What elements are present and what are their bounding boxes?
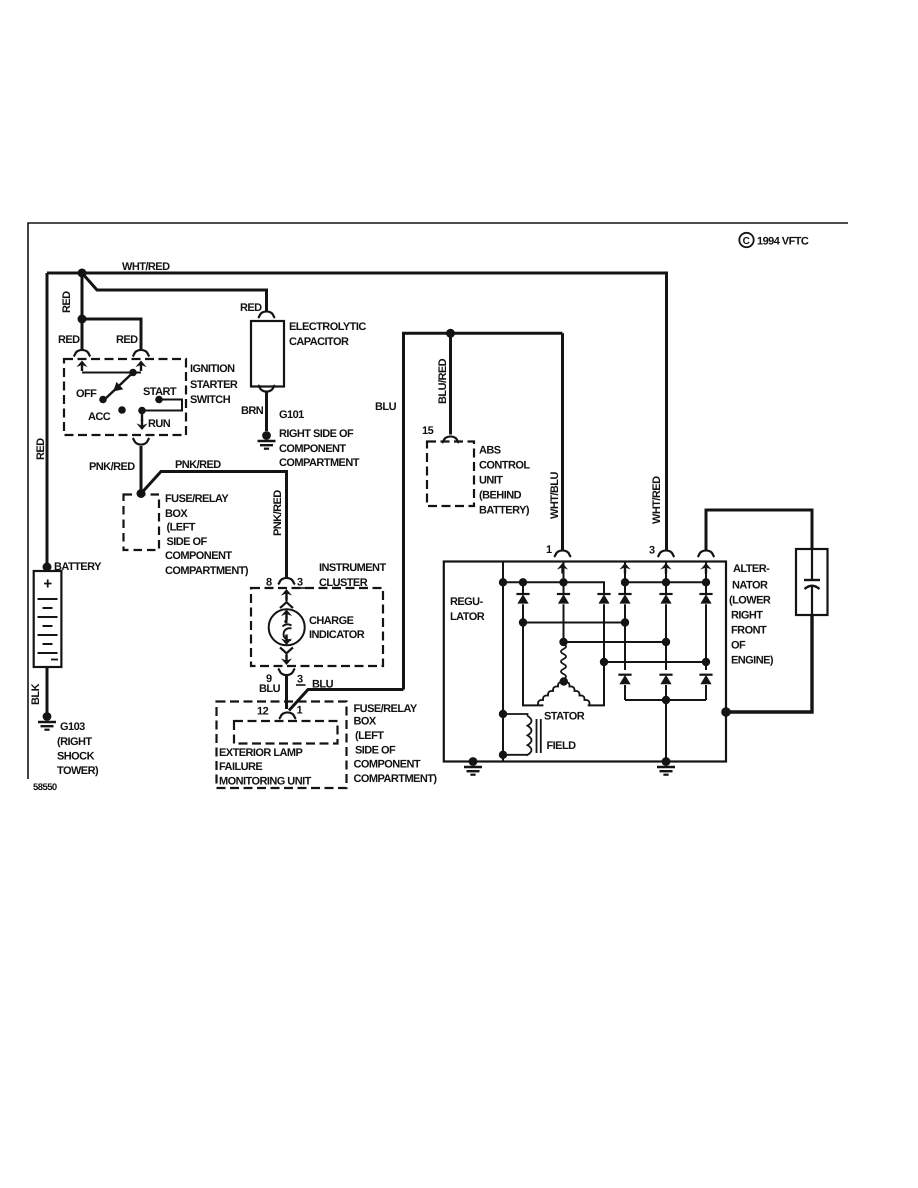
- node B+ case: [721, 707, 731, 717]
- wire RED main battery feed: [46, 273, 49, 567]
- node bus D6: [702, 578, 710, 586]
- svg-text:(RIGHT: (RIGHT: [57, 736, 92, 748]
- svg-text:BOX: BOX: [165, 508, 188, 520]
- svg-text:MONITORING UNIT: MONITORING UNIT: [219, 776, 312, 788]
- node bus D5: [662, 578, 670, 586]
- connector arc pin B2: [133, 350, 150, 356]
- svg-text:RED: RED: [116, 334, 138, 346]
- node J4: [446, 329, 455, 338]
- svg-text:ENGINE): ENGINE): [731, 655, 774, 667]
- wire rectifier bus right: [625, 581, 706, 583]
- wire column D6: [705, 562, 707, 701]
- ground G103: [38, 712, 56, 730]
- svg-text:BLK: BLK: [30, 683, 42, 705]
- svg-text:3: 3: [649, 545, 655, 557]
- node J2: [78, 315, 87, 324]
- switch wiper arm: [104, 373, 133, 401]
- svg-text:PNK/RED: PNK/RED: [175, 459, 221, 471]
- svg-text:WHT/RED: WHT/RED: [651, 476, 663, 524]
- svg-text:OF: OF: [731, 640, 746, 652]
- wire column D4: [624, 562, 626, 701]
- wire BLU cluster to monitoring unit: [285, 676, 288, 710]
- wire START to RUN: [142, 400, 182, 411]
- charge indicator lamp: [281, 589, 292, 600]
- svg-text:1: 1: [297, 705, 303, 717]
- node field bottom: [499, 751, 507, 759]
- arrow RUN output: [141, 411, 143, 422]
- arrow terminal left: [76, 361, 87, 372]
- alternator case: [444, 562, 726, 762]
- node bus D1: [519, 578, 527, 586]
- svg-text:(BEHIND: (BEHIND: [479, 490, 522, 502]
- svg-text:8: 8: [266, 577, 272, 589]
- connector arc monitoring unit pin: [279, 712, 296, 718]
- node field top: [499, 710, 507, 718]
- svg-text:BOX: BOX: [354, 716, 377, 728]
- electrolytic capacitor C1: [251, 311, 366, 391]
- ABS control unit U3: [427, 442, 474, 507]
- node rail-regulator: [499, 578, 507, 586]
- svg-text:SHOCK: SHOCK: [57, 751, 95, 763]
- svg-text:ABS: ABS: [479, 445, 501, 457]
- svg-text:FAILURE: FAILURE: [219, 761, 262, 773]
- svg-text:C: C: [743, 236, 750, 247]
- ignition starter switch S1: [64, 350, 238, 435]
- node phase A left: [559, 638, 567, 646]
- wire B+ terminal to suppression capacitor: [706, 510, 812, 551]
- svg-text:UNIT: UNIT: [479, 475, 503, 487]
- wire PNK/RED to instrument cluster: [141, 472, 287, 578]
- wire RED to ignition switch terminals: [82, 319, 141, 351]
- connector arc RUN output: [133, 438, 150, 444]
- svg-text:FUSE/RELAY: FUSE/RELAY: [354, 703, 418, 715]
- svg-text:ACC: ACC: [88, 411, 111, 423]
- svg-text:CONTROL: CONTROL: [479, 460, 530, 472]
- svg-text:REGU-: REGU-: [450, 596, 484, 608]
- svg-text:INDICATOR: INDICATOR: [309, 629, 365, 641]
- node J3: [137, 489, 146, 498]
- wire WHT/BLU to alternator terminal 1: [561, 333, 564, 551]
- node RUN contact: [138, 407, 146, 415]
- svg-text:(LEFT: (LEFT: [167, 522, 196, 534]
- ground case right: [657, 757, 675, 775]
- instrument cluster U1: [251, 562, 386, 686]
- diode D9: [699, 675, 712, 685]
- ground case left: [464, 757, 482, 775]
- arrow terminal 1: [557, 563, 568, 574]
- svg-text:WHT/BLU: WHT/BLU: [549, 472, 561, 519]
- diode D1: [516, 594, 529, 604]
- svg-text:ALTER-: ALTER-: [733, 563, 770, 575]
- svg-text:G103: G103: [60, 721, 85, 733]
- arrow terminal B+: [700, 563, 711, 574]
- node bus D2: [559, 578, 567, 586]
- diode D4: [618, 594, 631, 604]
- diode D6: [699, 594, 712, 604]
- svg-text:BLU/RED: BLU/RED: [437, 358, 449, 404]
- wire rectifier bottom rail: [625, 699, 706, 701]
- wire terminal link: [82, 372, 141, 374]
- svg-text:COMPONENT: COMPONENT: [354, 759, 421, 771]
- svg-text:TOWER): TOWER): [57, 765, 99, 777]
- node pivot: [129, 369, 137, 377]
- svg-text:INSTRUMENT: INSTRUMENT: [319, 562, 386, 574]
- svg-text:SWITCH: SWITCH: [190, 394, 231, 406]
- copyright 1994 VFTC: [739, 233, 809, 248]
- svg-text:15: 15: [422, 425, 434, 437]
- wire phase A link: [564, 641, 667, 643]
- svg-text:IGNITION: IGNITION: [190, 363, 235, 375]
- connector arc pin 8: [278, 578, 295, 584]
- svg-text:START: START: [143, 386, 177, 398]
- svg-text:SIDE OF: SIDE OF: [167, 536, 208, 548]
- svg-text:COMPARTMENT): COMPARTMENT): [165, 565, 249, 577]
- node bus D4: [621, 578, 629, 586]
- svg-text:ELECTROLYTIC: ELECTROLYTIC: [289, 321, 366, 333]
- switch box: [64, 359, 186, 435]
- svg-text:RED: RED: [61, 291, 73, 313]
- svg-text:COMPONENT: COMPONENT: [165, 550, 232, 562]
- connector arc terminal 1: [554, 550, 571, 556]
- wire column D2: [563, 562, 565, 645]
- svg-text:WHT/RED: WHT/RED: [122, 261, 170, 273]
- svg-text:FRONT: FRONT: [731, 625, 767, 637]
- node OFF contact: [99, 396, 107, 404]
- svg-text:OFF: OFF: [76, 388, 97, 400]
- diode D3: [597, 594, 610, 604]
- stator windings: [561, 644, 566, 679]
- svg-text:RED: RED: [58, 334, 80, 346]
- svg-text:EXTERIOR LAMP: EXTERIOR LAMP: [219, 747, 303, 759]
- node ACC contact: [118, 406, 126, 414]
- wire BLK battery negative: [46, 667, 49, 713]
- node phase C right: [702, 658, 710, 666]
- wire BLU riser: [404, 333, 563, 689]
- node battery positive: [43, 563, 52, 572]
- svg-text:1: 1: [546, 544, 552, 556]
- svg-text:STATOR: STATOR: [544, 711, 585, 723]
- wire column D1: [523, 582, 543, 705]
- svg-text:PNK/RED: PNK/RED: [89, 461, 135, 473]
- svg-text:12: 12: [257, 706, 269, 718]
- connector arc terminal B+: [698, 550, 715, 556]
- arrow center tap: [619, 563, 630, 574]
- arrow terminal right: [135, 361, 146, 372]
- node J1: [78, 269, 87, 278]
- svg-text:LATOR: LATOR: [450, 611, 485, 623]
- svg-text:58550: 58550: [33, 782, 57, 793]
- wire RED junction drop: [81, 273, 84, 319]
- svg-text:1994 VFTC: 1994 VFTC: [757, 236, 809, 248]
- alternator U4: [444, 544, 731, 775]
- wire WHT/RED: battery bus to alternator terminal 3: [47, 273, 667, 551]
- connector arc top: [258, 311, 275, 317]
- node stator center: [560, 677, 568, 685]
- connector arc ABS pin 15: [442, 436, 459, 442]
- svg-text:(LEFT: (LEFT: [355, 730, 384, 742]
- suppression capacitor C2: [796, 549, 828, 615]
- node phase B left: [519, 618, 527, 626]
- wire rectifier bus left: [503, 582, 604, 593]
- wire capacitor to alternator case: [726, 615, 812, 712]
- diode D8: [659, 675, 672, 685]
- wire BLU/RED to ABS unit: [449, 333, 452, 434]
- svg-text:CAPACITOR: CAPACITOR: [289, 336, 349, 348]
- diode D7: [618, 675, 631, 685]
- diode D2: [557, 594, 570, 604]
- wire regulator rail: [502, 562, 504, 762]
- connector arc bottom: [258, 385, 275, 391]
- node phase C left: [600, 658, 608, 666]
- svg-text:(LOWER: (LOWER: [729, 595, 771, 607]
- svg-text:RUN: RUN: [148, 418, 171, 430]
- svg-text:PNK/RED: PNK/RED: [272, 490, 284, 536]
- fuse/relay box FB1: [124, 495, 160, 551]
- svg-text:CLUSTER: CLUSTER: [319, 577, 368, 589]
- wire BLU harness branch: [289, 690, 404, 711]
- arrow terminal 3: [660, 563, 671, 574]
- svg-text:3: 3: [297, 577, 303, 589]
- svg-text:FIELD: FIELD: [547, 740, 577, 752]
- connector arc pin B1: [74, 350, 91, 356]
- node START contact: [155, 396, 163, 404]
- svg-text:COMPONENT: COMPONENT: [279, 443, 346, 455]
- svg-text:STARTER: STARTER: [190, 379, 238, 391]
- wire phase C link: [604, 661, 706, 663]
- connector arc pin 9: [278, 669, 295, 675]
- svg-text:CHARGE: CHARGE: [309, 615, 354, 627]
- svg-text:RIGHT: RIGHT: [731, 610, 763, 622]
- field core: [536, 719, 538, 753]
- node phase B right: [621, 618, 629, 626]
- svg-text:BRN: BRN: [241, 405, 264, 417]
- svg-text:COMPARTMENT: COMPARTMENT: [279, 457, 360, 469]
- svg-text:BLU: BLU: [375, 401, 397, 413]
- wire RED to electrolytic capacitor: [82, 273, 267, 311]
- svg-text:NATOR: NATOR: [732, 580, 768, 592]
- ground G101: [258, 431, 276, 449]
- wire BRN capacitor to ground: [265, 392, 268, 431]
- exterior lamp failure monitoring unit U2: [217, 702, 347, 789]
- node phase A right: [662, 638, 670, 646]
- svg-text:BLU: BLU: [259, 683, 281, 695]
- wire column D5: [665, 562, 667, 762]
- cluster box: [251, 588, 383, 666]
- svg-text:RED: RED: [240, 302, 262, 314]
- svg-text:3: 3: [297, 674, 303, 686]
- page border frame: [28, 223, 848, 779]
- svg-text:G101: G101: [279, 409, 304, 421]
- wire column D3: [588, 604, 604, 705]
- svg-text:SIDE OF: SIDE OF: [355, 745, 396, 757]
- wire PNK/RED from ignition RUN: [140, 446, 143, 494]
- node bottom rail: [662, 696, 670, 704]
- field coil: [503, 714, 532, 755]
- capacitor body: [251, 321, 284, 387]
- wire phase B link: [523, 622, 625, 624]
- svg-text:COMPARTMENT): COMPARTMENT): [354, 773, 438, 785]
- monitoring unit inner module: [234, 721, 338, 744]
- svg-text:RED: RED: [35, 438, 47, 460]
- diode D5: [659, 594, 672, 604]
- svg-text:BATTERY): BATTERY): [479, 505, 530, 517]
- svg-text:RIGHT SIDE OF: RIGHT SIDE OF: [279, 428, 354, 440]
- connector arc terminal 3: [658, 550, 675, 556]
- svg-text:FUSE/RELAY: FUSE/RELAY: [165, 493, 229, 505]
- battery B1: [34, 571, 62, 667]
